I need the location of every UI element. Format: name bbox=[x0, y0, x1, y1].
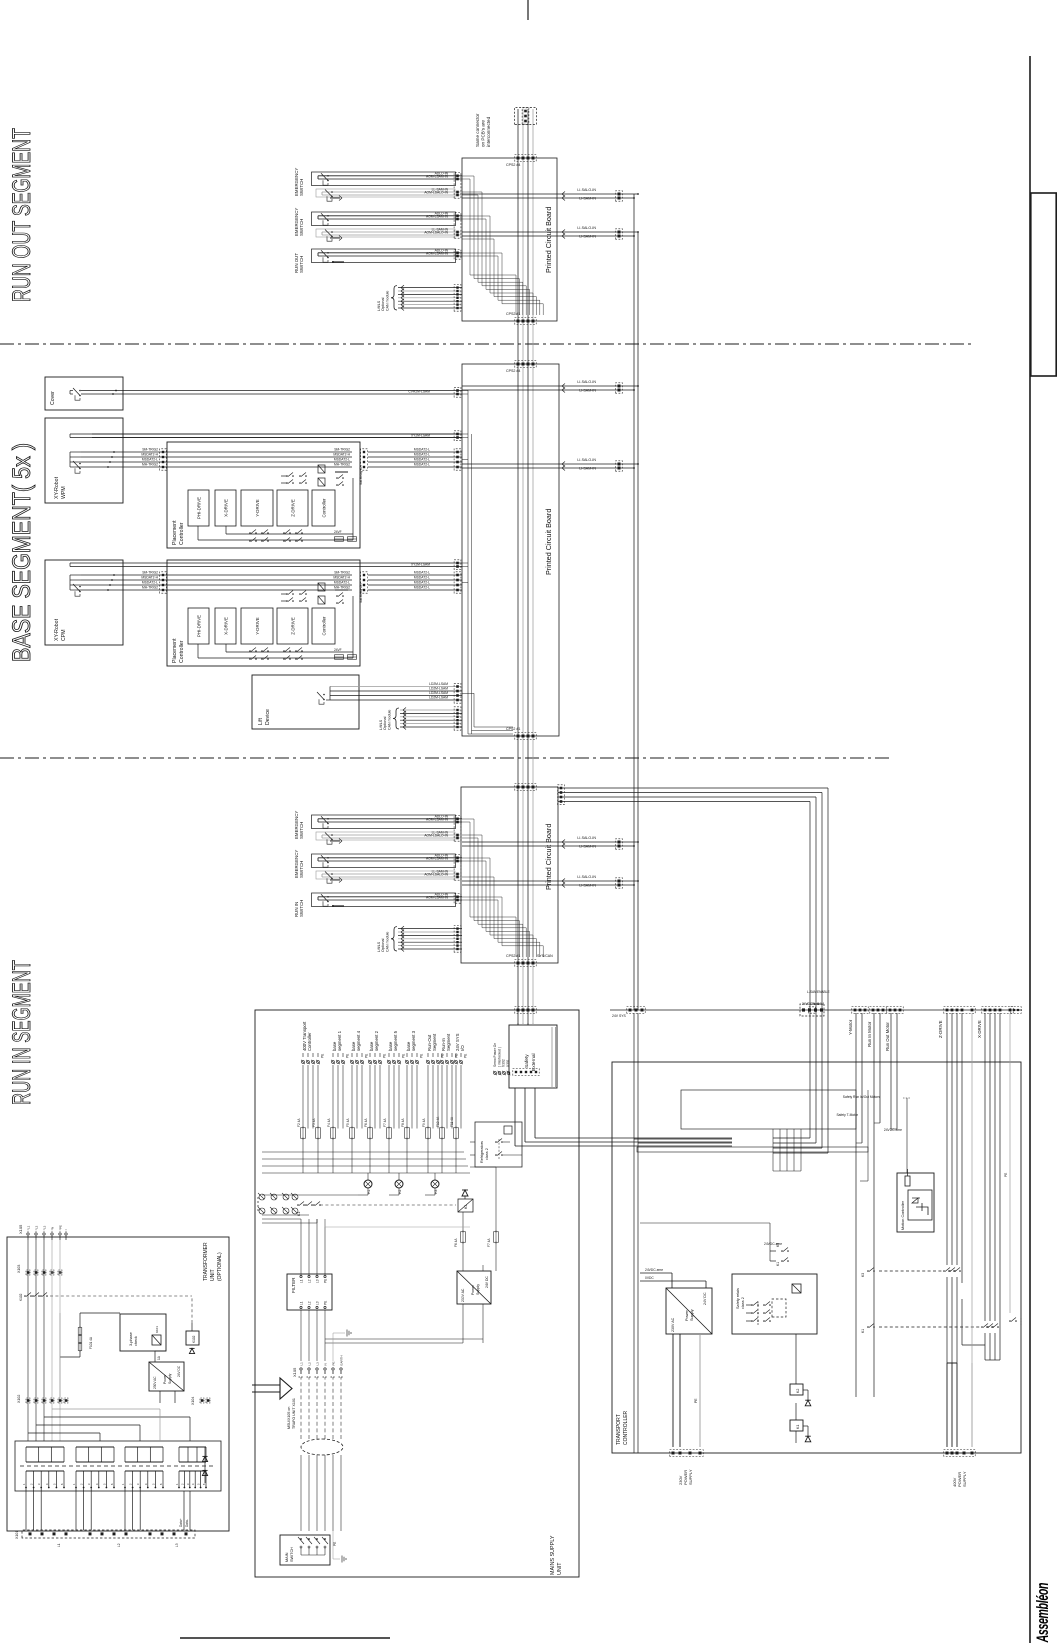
svg-text:K101: K101 bbox=[155, 1326, 159, 1333]
terminal group base segment 2 bbox=[369, 1061, 372, 1064]
wires X105 into transformer bbox=[27, 1240, 29, 1441]
svg-text:F7 4A: F7 4A bbox=[383, 1118, 387, 1127]
svg-text:L3: L3 bbox=[175, 1543, 179, 1547]
svg-text:230V AC: 230V AC bbox=[153, 1376, 157, 1389]
wires Lift Device to BASE PCB bbox=[330, 699, 462, 701]
svg-text:Placement: Placement bbox=[172, 520, 178, 545]
svg-text:segment 3: segment 3 bbox=[411, 1030, 416, 1051]
svg-text:LI-SALO-IN: LI-SALO-IN bbox=[577, 836, 596, 840]
svg-text:Data-: Data- bbox=[185, 1519, 189, 1527]
svg-text:4: 4 bbox=[95, 1483, 99, 1485]
connector 230V POWER SUPPLY bbox=[670, 1450, 703, 1457]
svg-text:Printed Circuit Board: Printed Circuit Board bbox=[544, 207, 553, 273]
svg-text:Printed Circuit Board: Printed Circuit Board bbox=[544, 824, 553, 890]
switch group EMERGENCY|SWITCH at x=816 bbox=[312, 815, 456, 829]
box XY-Robot WPM bbox=[45, 418, 123, 503]
box Z-DRIVE bbox=[277, 608, 308, 644]
svg-text:5: 5 bbox=[197, 1483, 201, 1485]
svg-text:F9 4A: F9 4A bbox=[422, 1118, 426, 1127]
svg-text:SWITCH: SWITCH bbox=[290, 1547, 294, 1562]
relay coils Saf.Relay Ch bbox=[318, 478, 325, 486]
svg-text:PE: PE bbox=[455, 1054, 459, 1058]
svg-text:Saf.Relay Ch: Saf.Relay Ch bbox=[359, 465, 363, 485]
svg-text:X-DRIVE: X-DRIVE bbox=[224, 499, 229, 517]
svg-text:K102: K102 bbox=[19, 1293, 23, 1301]
box Cover bbox=[45, 377, 123, 410]
svg-text:H3: H3 bbox=[434, 1190, 438, 1194]
connector safety tap x=1407 bbox=[616, 229, 623, 239]
svg-text:FILTER: FILTER bbox=[291, 1277, 296, 1293]
switch RUN OUT|SWITCH actuator tail bbox=[332, 261, 344, 263]
svg-text:L3: L3 bbox=[42, 1225, 46, 1229]
contacts K3 at Z-DRIVE lines bbox=[943, 1270, 945, 1272]
svg-text:CAN module: CAN module bbox=[387, 710, 391, 730]
switch contact RUN OUT|SWITCH A bbox=[323, 257, 328, 262]
transformer core dashed line bbox=[20, 1465, 215, 1467]
wire XY WPM pair to PCB bbox=[92, 437, 462, 439]
svg-text:Y-Motor: Y-Motor bbox=[848, 1019, 853, 1035]
wires lift to BASE internal bbox=[462, 692, 474, 694]
svg-text:MH-TRIG2: MH-TRIG2 bbox=[334, 463, 350, 467]
wires relay coils bbox=[795, 1334, 797, 1384]
contacts K1 at X-DRIVE lines bbox=[981, 1326, 983, 1328]
svg-text:Controller: Controller bbox=[322, 498, 327, 518]
svg-text:Cover: Cover bbox=[50, 391, 56, 405]
connector CPS2 RUN OUT right bbox=[515, 155, 536, 162]
switch contact RUN IN|SWITCH A bbox=[323, 901, 328, 906]
svg-text:CPM: CPM bbox=[61, 629, 67, 641]
diode K1 suppressor bbox=[462, 1190, 468, 1196]
transformer windings block bbox=[15, 1441, 221, 1491]
svg-text:F101 4A: F101 4A bbox=[89, 1336, 93, 1349]
svg-text:X105: X105 bbox=[292, 1367, 297, 1377]
connector bundle at Placement Controller top edge bbox=[160, 572, 167, 593]
wires fuses to 3-phase check bbox=[79, 1350, 81, 1352]
svg-text:UNIT: UNIT bbox=[210, 1269, 216, 1281]
connector interface Z-DRIVE bbox=[944, 1007, 975, 1014]
svg-text:PE: PE bbox=[464, 1054, 468, 1058]
svg-text:MAINS SUPPLY: MAINS SUPPLY bbox=[550, 1535, 556, 1575]
svg-text:K1: K1 bbox=[297, 1212, 301, 1216]
svg-text:F3 4A: F3 4A bbox=[312, 1118, 316, 1127]
connector CAN module to PCB bbox=[454, 707, 461, 730]
wires transport bundle links bbox=[772, 1129, 774, 1171]
contacts below Y-DRIVE bbox=[249, 658, 251, 660]
svg-text:Controller: Controller bbox=[179, 522, 185, 545]
svg-text:Supply: Supply bbox=[476, 1284, 480, 1295]
wires RUN OUT safety taps out of PCB bbox=[462, 197, 558, 199]
wire safety tap at x=797 bbox=[558, 845, 634, 847]
terminal group 24V SYS I/O bbox=[455, 1061, 458, 1064]
circuit breakers cluster Q1 bbox=[259, 1208, 265, 1214]
svg-text:PE: PE bbox=[420, 1054, 424, 1058]
wires Placement Controller 2 to BASE PCB bbox=[368, 589, 462, 591]
svg-text:K1: K1 bbox=[796, 1425, 800, 1429]
wires RUN IN safety taps out of PCB bbox=[462, 845, 558, 847]
svg-text:CVR2M-LSAM: CVR2M-LSAM bbox=[408, 390, 430, 394]
power supply 24V box bbox=[457, 1271, 491, 1304]
svg-text:X105: X105 bbox=[18, 1224, 23, 1234]
connector interface Y-Motor bbox=[852, 1007, 868, 1014]
svg-text:LI-SAM-IN: LI-SAM-IN bbox=[579, 197, 596, 201]
svg-text:ENABLE: ENABLE bbox=[817, 990, 830, 994]
svg-text:24V SYS: 24V SYS bbox=[612, 1014, 626, 1018]
svg-text:MSDAT2-L: MSDAT2-L bbox=[334, 581, 350, 585]
svg-text:Safety Run In/Out Motors: Safety Run In/Out Motors bbox=[843, 1095, 881, 1099]
switch group RUN OUT|SWITCH at x=1382 bbox=[312, 249, 456, 263]
svg-text:SM-TRIG2: SM-TRIG2 bbox=[334, 571, 350, 575]
svg-text:SWITCH: SWITCH bbox=[299, 861, 304, 878]
connector CPS2 RUN IN right bbox=[515, 784, 536, 791]
wires BASE safety taps out of PCB bbox=[462, 389, 558, 391]
connector interface safety bbox=[627, 1007, 645, 1014]
brace optional CAN module bbox=[391, 927, 397, 951]
wires RUN IN PCB internal routing bbox=[462, 821, 470, 823]
box FILTER bbox=[287, 1274, 332, 1310]
svg-text:X103: X103 bbox=[17, 1265, 21, 1273]
wires terminals to fuses bbox=[302, 1065, 304, 1129]
svg-text:MH-TRIG2: MH-TRIG2 bbox=[334, 586, 350, 590]
box XY-Robot CPM bbox=[45, 560, 123, 645]
svg-text:Z-DRIVE: Z-DRIVE bbox=[291, 499, 296, 517]
svg-text:H1: H1 bbox=[367, 1190, 371, 1194]
connector interface X-DRIVE bbox=[982, 1007, 1013, 1014]
box TRANSFORMER UNIT (OPTIONAL) bbox=[7, 1237, 229, 1531]
svg-text:230V AC: 230V AC bbox=[671, 1317, 675, 1332]
contacts K1 drive interlock bbox=[867, 1326, 869, 1328]
svg-text:Same connector: Same connector bbox=[475, 113, 480, 147]
filter pin PE bbox=[324, 1306, 326, 1308]
svg-text:ADLO-IN: ADLO-IN bbox=[435, 814, 449, 818]
connector CAN module to PCB bbox=[454, 284, 461, 311]
svg-text:CONTROLLER: CONTROLLER bbox=[623, 1410, 629, 1445]
terminal group Run-Out Segment bbox=[427, 1061, 430, 1064]
sheet frame left edge remnant bbox=[180, 1637, 390, 1639]
wires X-DRIVE to contacts bbox=[984, 1013, 986, 1321]
relay coil K1 with diode bbox=[790, 1420, 803, 1431]
contacts safety relais bbox=[751, 1320, 753, 1322]
svg-text:L-SAM: L-SAM bbox=[807, 990, 817, 994]
svg-text:LI-SAM-IN: LI-SAM-IN bbox=[579, 235, 596, 239]
svg-text:6: 6 bbox=[60, 1483, 64, 1485]
svg-text:Placement: Placement bbox=[172, 638, 178, 663]
svg-text:PE: PE bbox=[441, 1054, 445, 1058]
connector motor-power bundle at PCB bbox=[558, 785, 565, 805]
dashed aux box safety relais bbox=[772, 1299, 786, 1317]
svg-text:6: 6 bbox=[202, 1483, 206, 1485]
connector safety tap x=1175 bbox=[616, 461, 623, 471]
connector XY-Robot WPM pair to PCB bbox=[454, 431, 461, 441]
svg-text:L2: L2 bbox=[308, 1301, 312, 1305]
svg-text:SWITCH: SWITCH bbox=[299, 900, 304, 917]
terminal group base segment 4 bbox=[351, 1061, 354, 1064]
svg-text:L2: L2 bbox=[308, 1279, 312, 1283]
section separator BASE / RUN IN (dash-dot) bbox=[0, 757, 890, 759]
svg-text:SWITCH: SWITCH bbox=[299, 219, 304, 236]
power supply 230V box transport bbox=[666, 1288, 712, 1334]
wires drive supply inside Placement Controller bbox=[197, 644, 199, 658]
machine interface line bbox=[610, 1009, 1022, 1011]
svg-text:segment 2: segment 2 bbox=[374, 1030, 379, 1051]
wire XY-Robot CPM signal pair bbox=[70, 566, 462, 568]
svg-text:X101: X101 bbox=[15, 1531, 19, 1539]
fuse 24V F1 bbox=[335, 655, 344, 660]
box Safety External bbox=[509, 1025, 557, 1088]
connector interface motor-power bbox=[809, 1007, 816, 1013]
svg-text:RUN OUT SEGMENT: RUN OUT SEGMENT bbox=[8, 128, 36, 302]
svg-text:PE: PE bbox=[58, 1225, 62, 1229]
fuse F6 bbox=[461, 1232, 466, 1243]
terminal group base segment 3 bbox=[406, 1061, 409, 1064]
connector EMERGENCY|SWITCH to PCB bbox=[454, 855, 461, 881]
svg-text:24VF: 24VF bbox=[334, 648, 342, 652]
box Safety relais class 2 bbox=[732, 1274, 817, 1334]
svg-text:SYS/CAN: SYS/CAN bbox=[537, 954, 553, 958]
wires refrigerators bbox=[470, 1154, 475, 1156]
svg-text:L2: L2 bbox=[34, 1225, 38, 1229]
svg-text:Run Out Motor: Run Out Motor bbox=[885, 1022, 890, 1051]
svg-text:Saf.Relay Ch: Saf.Relay Ch bbox=[359, 583, 363, 603]
svg-text:X-DRIVE: X-DRIVE bbox=[224, 617, 229, 635]
box MAIN SWITCH bbox=[280, 1535, 330, 1565]
relay coil K102 with diode bbox=[186, 1331, 199, 1345]
connector bundle at Placement Controller top edge bbox=[160, 449, 167, 470]
wires drive supply inside Placement Controller bbox=[197, 526, 199, 540]
box Y-DRIVE bbox=[241, 608, 273, 644]
svg-text:24VF: 24VF bbox=[334, 530, 342, 534]
svg-text:K102: K102 bbox=[192, 1335, 196, 1343]
wires 24V supply branch bbox=[462, 1242, 464, 1272]
opto coupler motion controller bbox=[908, 1190, 932, 1220]
switch group EMERGENCY|SWITCH at x=1419 bbox=[312, 212, 456, 226]
svg-text:SM-TRIG2: SM-TRIG2 bbox=[142, 571, 158, 575]
svg-text:24VDC-eme: 24VDC-eme bbox=[884, 1128, 902, 1132]
box PHI-DRIVE bbox=[188, 490, 209, 526]
wire CAN/SYS bus line 4 bbox=[532, 109, 534, 1023]
svg-text:LL-SAM-IN: LL-SAM-IN bbox=[432, 188, 449, 192]
svg-text:3: 3 bbox=[186, 1483, 190, 1485]
svg-text:1: 1 bbox=[72, 1483, 76, 1485]
wires robot bundle into Placement Controller bbox=[81, 589, 352, 591]
svg-text:5: 5 bbox=[151, 1483, 155, 1485]
svg-text:L1: L1 bbox=[300, 1279, 304, 1283]
svg-text:LL-SAM-IN: LL-SAM-IN bbox=[432, 831, 449, 835]
svg-text:X104: X104 bbox=[191, 1397, 195, 1405]
switch contact EMERGENCY|SWITCH A bbox=[323, 180, 328, 185]
wires transport verticals bbox=[867, 1090, 869, 1181]
switch contact EMERGENCY|SWITCH B bbox=[327, 839, 332, 844]
PCB board BASE segment bbox=[462, 364, 559, 736]
svg-text:CAN module: CAN module bbox=[385, 932, 389, 952]
svg-text:LI-SALO-IN: LI-SALO-IN bbox=[577, 188, 596, 192]
svg-text:LD2M-LSAM: LD2M-LSAM bbox=[429, 696, 448, 700]
wire trafo PE rail bbox=[59, 1313, 61, 1397]
wire K102 dashed link bbox=[50, 1295, 192, 1297]
fuse F7 bbox=[494, 1232, 499, 1243]
svg-text:Z-DRIVE: Z-DRIVE bbox=[291, 617, 296, 635]
box Placement Controller bbox=[167, 560, 360, 666]
wires motor step-downs bbox=[947, 1362, 957, 1364]
box 3-phase check bbox=[120, 1314, 166, 1351]
svg-text:SM-TRIG2: SM-TRIG2 bbox=[334, 448, 350, 452]
svg-text:LI-SAM-IN: LI-SAM-IN bbox=[579, 467, 596, 471]
svg-text:PE: PE bbox=[365, 1054, 369, 1058]
wire gray pair below Safety External bbox=[551, 1027, 553, 1089]
wire safety tap at x=1445 bbox=[558, 197, 634, 199]
main switch pole 3 bbox=[316, 1538, 318, 1540]
svg-text:F6 4A: F6 4A bbox=[364, 1118, 368, 1127]
svg-text:LL-SAM-IN: LL-SAM-IN bbox=[432, 228, 449, 232]
terminal group base segment 5 bbox=[388, 1061, 391, 1064]
svg-text:Y-DRIVE: Y-DRIVE bbox=[255, 499, 260, 516]
section separator RUN OUT / BASE (dash-dot) bbox=[0, 343, 973, 345]
connector EMERGENCY|SWITCH to PCB bbox=[454, 173, 461, 199]
svg-text:Motion Controller: Motion Controller bbox=[901, 1200, 905, 1230]
contacts below Z-DRIVE bbox=[283, 540, 285, 542]
switch contact EMERGENCY|SWITCH B bbox=[327, 236, 332, 241]
main switch pole 4 bbox=[324, 1538, 326, 1540]
transformer winding group 2 bbox=[76, 1461, 114, 1463]
svg-text:segment 5: segment 5 bbox=[393, 1030, 398, 1051]
svg-text:MSDAT2-L: MSDAT2-L bbox=[414, 458, 430, 462]
svg-text:LI-SALO-IN: LI-SALO-IN bbox=[577, 380, 596, 384]
box Placement Controller bbox=[167, 442, 360, 548]
svg-text:XY-Robot: XY-Robot bbox=[54, 618, 60, 641]
box X-DRIVE bbox=[215, 608, 236, 644]
relay contacts right of Controller bbox=[286, 482, 288, 484]
svg-text:Safety T-Motor: Safety T-Motor bbox=[836, 1113, 858, 1117]
wire safety tap at x=758 bbox=[558, 884, 634, 886]
box Lift Device bbox=[252, 675, 359, 729]
svg-text:2: 2 bbox=[30, 1483, 34, 1485]
svg-text:CPS2 #4: CPS2 #4 bbox=[506, 163, 520, 167]
relay coil K2 with diode bbox=[790, 1384, 803, 1395]
wires Run Out motor to transport bbox=[890, 1013, 892, 1129]
svg-text:24VDC-eme: 24VDC-eme bbox=[764, 1242, 782, 1246]
switch XY-Robot WPM bbox=[75, 468, 80, 473]
svg-text:LD2M-LSAM: LD2M-LSAM bbox=[429, 691, 448, 695]
svg-text:Power: Power bbox=[471, 1284, 475, 1295]
terminal group base segment 1 bbox=[332, 1061, 335, 1064]
svg-text:24V DC: 24V DC bbox=[703, 1292, 707, 1305]
wires motor-power bundle into transport logic bbox=[773, 1137, 810, 1139]
svg-text:3: 3 bbox=[136, 1483, 140, 1485]
svg-text:LI-SALO-IN: LI-SALO-IN bbox=[577, 458, 596, 462]
wires windings to X101 bbox=[25, 1488, 27, 1530]
box MAINS SUPPLY UNIT bbox=[255, 1010, 579, 1577]
connector interface Run Out Motor bbox=[887, 1007, 903, 1014]
relay K101 bbox=[152, 1335, 161, 1345]
svg-text:Power: Power bbox=[163, 1374, 167, 1384]
svg-text:LI-SAM-IN: LI-SAM-IN bbox=[579, 884, 596, 888]
connector Cover to PCB bbox=[454, 387, 461, 397]
fuse 24V F1 bbox=[335, 537, 344, 542]
wire safety chain line A bbox=[633, 194, 635, 1010]
fuses mains distribution bbox=[301, 1128, 306, 1139]
wires into trafo 24V supply bbox=[154, 1351, 156, 1362]
lamp H2 bbox=[395, 1180, 403, 1188]
wires safety pair into transport bbox=[638, 1142, 732, 1144]
svg-text:PE: PE bbox=[331, 1361, 335, 1365]
transformer winding group 3 bbox=[125, 1461, 163, 1463]
svg-text:I/O: I/O bbox=[460, 1045, 465, 1051]
svg-text:24VDC-eme: 24VDC-eme bbox=[645, 1268, 663, 1272]
svg-text:L1: L1 bbox=[26, 1225, 30, 1229]
svg-text:3: 3 bbox=[87, 1483, 91, 1485]
svg-text:5: 5 bbox=[102, 1483, 106, 1485]
wire K1 dashed link bbox=[320, 1204, 456, 1206]
svg-text:SUPPLY: SUPPLY bbox=[962, 1471, 967, 1487]
arrow mains input bbox=[252, 1378, 292, 1399]
box transport inner frame A bbox=[681, 1090, 856, 1129]
wires into 24V power supply bbox=[462, 1304, 464, 1343]
svg-text:PE: PE bbox=[694, 1398, 698, 1403]
lamp H3 bbox=[431, 1180, 439, 1188]
svg-text:Device: Device bbox=[265, 709, 271, 725]
box Z-DRIVE bbox=[277, 490, 308, 526]
svg-text:3: 3 bbox=[37, 1483, 41, 1485]
wires bus into Safety External bbox=[517, 1023, 519, 1025]
svg-text:MH-TRIG2: MH-TRIG2 bbox=[142, 586, 158, 590]
wires X105 to FILTER bbox=[300, 1310, 302, 1361]
svg-text:F8 4A: F8 4A bbox=[401, 1118, 405, 1127]
filter pin L1 bbox=[300, 1306, 302, 1308]
switch Lift Device bbox=[319, 699, 324, 704]
switch group RUN IN|SWITCH at x=738 bbox=[312, 893, 456, 907]
svg-text:L2: L2 bbox=[307, 1362, 311, 1366]
svg-text:CPS2 #4: CPS2 #4 bbox=[506, 369, 520, 373]
connector bundle at Placement Controller bottom edge bbox=[361, 572, 368, 593]
svg-text:2: 2 bbox=[129, 1483, 133, 1485]
contact thermo on PE line bbox=[1009, 1320, 1011, 1322]
connector CPS2 mains edge bbox=[515, 1007, 536, 1014]
svg-text:4: 4 bbox=[45, 1483, 49, 1485]
svg-text:MSDAT2-L: MSDAT2-L bbox=[142, 581, 158, 585]
wire CAN/SYS bus line 1 bbox=[517, 109, 519, 1023]
connector bundle at Placement Controller bottom edge bbox=[361, 449, 368, 470]
svg-text:RUN IN SEGMENT: RUN IN SEGMENT bbox=[8, 960, 36, 1105]
svg-text:PE: PE bbox=[402, 1054, 406, 1058]
box Controller bbox=[312, 608, 335, 644]
svg-text:MSDAT2-H: MSDAT2-H bbox=[333, 576, 350, 580]
main switch pole 2 bbox=[308, 1538, 310, 1540]
svg-text:TRAFO UNIT X101: TRAFO UNIT X101 bbox=[292, 1398, 296, 1429]
svg-text:H2: H2 bbox=[398, 1190, 402, 1194]
connector 400V POWER SUPPLY bbox=[944, 1450, 975, 1457]
junction dots safety chain bbox=[633, 197, 635, 199]
svg-text:SWITCH: SWITCH bbox=[299, 822, 304, 839]
svg-text:MSDAT2-L: MSDAT2-L bbox=[414, 581, 430, 585]
relay contacts right of Controller bbox=[286, 600, 288, 602]
wire collector risers bbox=[262, 1172, 470, 1174]
coil safety relais bbox=[792, 1284, 801, 1293]
svg-text:MSDAT2-L: MSDAT2-L bbox=[414, 576, 430, 580]
svg-text:1: 1 bbox=[22, 1483, 26, 1485]
wires 230V into transport PS bbox=[672, 1334, 674, 1447]
svg-text:segment 4: segment 4 bbox=[356, 1030, 361, 1051]
svg-text:XY2M-LSAM: XY2M-LSAM bbox=[411, 563, 430, 567]
wire motor-power bundle out of RUN IN PCB bbox=[558, 801, 810, 803]
svg-text:MSDAT2-L: MSDAT2-L bbox=[414, 463, 430, 467]
svg-text:LI-SALO-IN: LI-SALO-IN bbox=[577, 226, 596, 230]
svg-text:LI-SALO-IN: LI-SALO-IN bbox=[577, 875, 596, 879]
diode chain fan supply bbox=[204, 1447, 206, 1483]
svg-text:LL-SAM-IN: LL-SAM-IN bbox=[432, 870, 449, 874]
svg-text:L1: L1 bbox=[300, 1301, 304, 1305]
svg-text:Controller: Controller bbox=[179, 640, 185, 663]
svg-text:Lift: Lift bbox=[258, 718, 264, 725]
svg-text:F5 4A: F5 4A bbox=[346, 1118, 350, 1127]
